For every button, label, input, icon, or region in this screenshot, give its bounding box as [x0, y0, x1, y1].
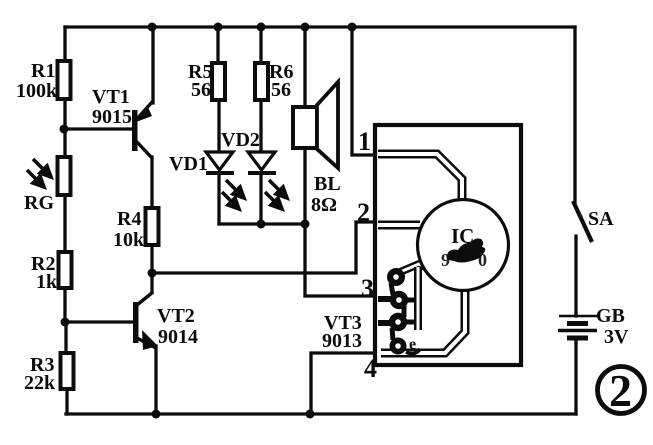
VT3 pad 1 [387, 268, 405, 286]
wire R5 to VD1 [217, 99, 220, 152]
wire R4 to node C [150, 244, 153, 292]
VT3 pad stub B2 [399, 298, 416, 303]
svg-text:GB: GB [596, 305, 625, 327]
photoresistor RG [24, 157, 71, 214]
VT3 pad 3 [389, 313, 407, 331]
svg-text:BL: BL [314, 173, 341, 195]
svg-text:2: 2 [609, 365, 632, 416]
node bottom rail pin4 [306, 410, 315, 419]
VT3 pad stub C2 [398, 320, 416, 325]
svg-text:56: 56 [271, 79, 291, 101]
wire VT1 collector to R4 [150, 157, 153, 208]
node speaker LED rail [301, 220, 310, 229]
svg-text:e: e [409, 336, 416, 353]
IC blob circle [418, 200, 509, 291]
wire R3 to bottom rail [65, 387, 68, 414]
wire top rail to pin 1 [352, 27, 378, 155]
svg-text:3: 3 [361, 274, 374, 303]
wire right rail to switch [573, 27, 576, 202]
transistor VT2 [133, 292, 198, 350]
battery GB [558, 305, 629, 348]
VT3 pad 2 [390, 291, 408, 309]
VT3 pad interconnect 3-4 [392, 328, 393, 340]
svg-text:9013: 9013 [322, 330, 362, 352]
resistor R2 [31, 252, 72, 293]
wire top rail [65, 25, 575, 28]
IC module outline [375, 125, 521, 365]
svg-text:100k: 100k [16, 80, 58, 102]
node dot top rail VT1 [148, 23, 157, 32]
svg-text:4: 4 [364, 354, 377, 383]
wire switch to battery [574, 236, 577, 316]
speaker BL [293, 82, 341, 216]
wire VT1 emitter to top rail [151, 27, 154, 103]
VT3 pad 4 emitter [390, 336, 421, 355]
wire R5 top [216, 27, 219, 63]
svg-text:VT2: VT2 [157, 305, 195, 327]
node bottom rail VT2 [152, 410, 161, 419]
svg-text:2: 2 [357, 198, 370, 227]
VT3 pad interconnect 2-3 [402, 306, 407, 317]
wire R2 to node B [63, 286, 66, 322]
svg-text:22k: 22k [24, 372, 56, 394]
wire left rail top segment [63, 27, 66, 61]
svg-text:R4: R4 [117, 208, 141, 230]
wire battery to bottom rail [574, 340, 577, 414]
LED VD1 [169, 152, 244, 209]
svg-text:3V: 3V [604, 326, 629, 348]
IC trace pin2 [378, 221, 420, 230]
VT3 labels [322, 312, 362, 352]
svg-text:VD1: VD1 [169, 153, 208, 175]
wire speaker bottom [303, 148, 306, 224]
node A R1 RG base [60, 125, 69, 134]
VT3 pad stub C [378, 320, 398, 326]
svg-text:RG: RG [24, 192, 54, 214]
IC trace VT3 diagonal to chip [400, 264, 428, 272]
wire RG to R2 [63, 195, 66, 252]
resistor R3 [24, 353, 74, 394]
node dot top rail R5 [214, 23, 223, 32]
node VD2 bottom [257, 220, 266, 229]
VT3 pad interconnect 1-2 [391, 283, 393, 295]
wire LED bottom rail [219, 222, 305, 225]
switch SA [573, 201, 614, 242]
node dot top rail R6 [257, 23, 266, 32]
LED VD2 [221, 129, 287, 209]
wire node B to R3 [64, 322, 67, 353]
wire R6 to VD2 [259, 99, 262, 152]
node C R4 collector [148, 269, 157, 278]
wire speaker node to pin 3 [305, 224, 378, 296]
resistor R4 [113, 208, 159, 251]
IC trace pin4 [381, 291, 465, 353]
wire VT2 emitter to bottom rail [154, 346, 157, 414]
svg-text:56: 56 [191, 79, 211, 101]
svg-text:10k: 10k [113, 229, 145, 251]
svg-text:1: 1 [358, 127, 371, 156]
resistor R6 [255, 61, 293, 101]
svg-text:SA: SA [588, 208, 614, 230]
wire VD1 cathode [217, 174, 220, 224]
svg-text:8Ω: 8Ω [311, 194, 337, 216]
IC trace VT3 vertical [414, 267, 422, 330]
wire VD2 cathode [259, 174, 262, 224]
wire bottom rail [66, 412, 576, 415]
wire R6 top [259, 27, 262, 63]
svg-text:9015: 9015 [92, 106, 132, 128]
figure number circled 2 [598, 365, 645, 416]
resistor R1 [16, 60, 71, 102]
svg-text:0: 0 [478, 250, 487, 270]
node dot top rail speaker [301, 23, 310, 32]
wire pin 4 to bottom rail [311, 353, 378, 414]
svg-text:VD2: VD2 [221, 129, 260, 151]
IC trace pin1 [378, 154, 462, 200]
wire speaker top [303, 27, 306, 107]
wire VT2 base [65, 320, 134, 323]
resistor R5 [188, 61, 225, 101]
svg-text:VT1: VT1 [92, 86, 130, 108]
svg-text:9: 9 [441, 250, 450, 270]
wire node A to RG [63, 129, 66, 157]
svg-text:1k: 1k [36, 271, 58, 293]
wire node C to pin 2 [152, 222, 378, 273]
wire R1 to node A [63, 99, 66, 129]
svg-text:9014: 9014 [158, 326, 198, 348]
svg-text:R1: R1 [31, 60, 55, 82]
node dot top rail pin1 [348, 23, 357, 32]
VT3 pad stub B [378, 296, 399, 302]
wire VT1 base [65, 127, 133, 130]
node B R2 R3 base [61, 318, 70, 327]
transistor VT1 [92, 86, 153, 158]
